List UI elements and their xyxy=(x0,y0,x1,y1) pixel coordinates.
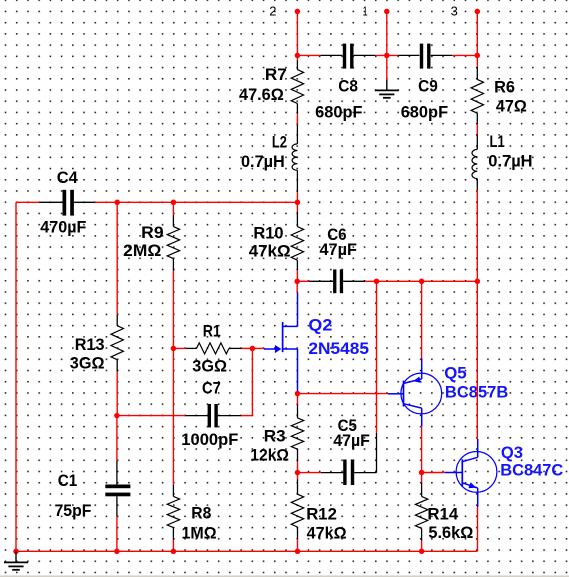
junction C5 net / R3 column xyxy=(295,470,301,476)
junction Q3 base net / R14 column xyxy=(419,470,425,476)
transistor Q5 BC857B xyxy=(388,359,442,427)
svg-text:R9: R9 xyxy=(141,223,163,242)
wire C5 net left stub xyxy=(298,472,322,474)
capacitor C4 xyxy=(40,190,95,216)
svg-text:R14: R14 xyxy=(427,505,458,524)
svg-text:L2: L2 xyxy=(272,133,287,152)
svg-text:3: 3 xyxy=(451,4,458,19)
junction C4 net / R13 column xyxy=(114,200,120,206)
svg-text:R10: R10 xyxy=(253,224,283,243)
svg-text:47Ω: 47Ω xyxy=(496,97,527,116)
resistor R8 xyxy=(167,485,179,540)
junction top net at node3 column xyxy=(475,53,481,59)
transistor Q5 label xyxy=(444,364,467,383)
node 1 pin xyxy=(384,9,390,56)
node 1 label xyxy=(363,4,368,19)
resistor R13 label xyxy=(75,335,105,354)
wire R1 left lead from junction xyxy=(173,347,186,349)
transistor Q3 BC847C xyxy=(445,439,497,507)
svg-text:680pF: 680pF xyxy=(401,103,448,122)
wire C5 right riser red part xyxy=(376,281,378,433)
inductor L1 label xyxy=(490,132,505,151)
wire C6 net left stub xyxy=(297,280,309,282)
resistor R6 label xyxy=(494,78,515,97)
junction C6 net / node3 column xyxy=(475,279,481,285)
resistor R10 value 47kΩ xyxy=(249,242,291,261)
resistor R10 xyxy=(291,211,303,270)
wire drain to C6 junction xyxy=(296,281,298,292)
capacitor C8 value 680pF xyxy=(315,103,362,122)
capacitor C1 value 75pF xyxy=(55,501,92,520)
svg-text:3GΩ: 3GΩ xyxy=(192,357,227,376)
svg-text:R12: R12 xyxy=(306,504,337,523)
svg-text:R8: R8 xyxy=(191,504,211,523)
resistor R6 xyxy=(471,67,483,124)
svg-text:Q3: Q3 xyxy=(501,443,523,462)
wire R1 right lead to gate junction xyxy=(242,347,253,349)
svg-text:47kΩ: 47kΩ xyxy=(307,523,347,542)
wire R8 to bottom rail xyxy=(172,540,174,551)
wire gate stub from junction xyxy=(252,347,264,349)
wire C7 net from R13 column junction xyxy=(117,415,185,417)
wire C6 net right xyxy=(365,280,477,282)
wire R14 to bottom rail xyxy=(421,541,423,552)
wire R10 to C6 net xyxy=(296,270,298,281)
svg-text:1MΩ: 1MΩ xyxy=(182,524,217,543)
resistor R1 value 3GΩ xyxy=(192,357,227,376)
wire C7 riser xyxy=(241,348,253,415)
capacitor C1 xyxy=(105,461,130,516)
wire source to Q5 base net xyxy=(297,391,299,394)
junction C7 net / R13 column xyxy=(114,413,120,419)
capacitor C8 xyxy=(321,44,376,69)
svg-text:BC847C: BC847C xyxy=(500,460,563,479)
wire C5 right riser black part xyxy=(376,433,378,473)
svg-text:2MΩ: 2MΩ xyxy=(123,241,161,260)
wire between R6 and L1 xyxy=(476,124,478,134)
capacitor C5 label xyxy=(338,416,357,435)
svg-text:R13: R13 xyxy=(75,335,105,354)
junction top net at node2 column xyxy=(295,53,301,59)
svg-text:R6: R6 xyxy=(494,78,515,97)
wire R9 down to R1 junction xyxy=(172,271,174,349)
transistor Q2 JFET 2N5485 xyxy=(264,293,298,392)
wire R3 to C5 net xyxy=(297,462,299,473)
wire C4 net to node2 column xyxy=(95,201,298,203)
svg-text:470µF: 470µF xyxy=(40,218,86,237)
wire bottom rail xyxy=(16,550,478,552)
junction bottom rail / C1 column xyxy=(114,549,120,555)
svg-text:680pF: 680pF xyxy=(315,103,362,122)
wire above R3 xyxy=(297,394,299,405)
wire node3 column down to Q3 collector xyxy=(476,281,478,439)
resistor R8 value 1MΩ xyxy=(182,524,217,543)
wire top net segment middle xyxy=(375,54,397,56)
wire node2 column above R7 xyxy=(296,55,298,60)
junction R1 net / R9 column xyxy=(171,346,177,352)
resistor R7 xyxy=(291,60,303,114)
resistor R9 label xyxy=(141,223,163,242)
svg-text:C9: C9 xyxy=(418,77,438,96)
resistor R12 label xyxy=(306,504,337,523)
resistor R1 label xyxy=(203,321,221,340)
capacitor C6 xyxy=(309,269,365,293)
transistor Q2 value 2N5485 xyxy=(308,339,369,358)
inductor L2 value 0.7µH xyxy=(241,152,285,171)
resistor R14 label xyxy=(427,505,458,524)
resistor R1 xyxy=(186,343,242,354)
resistor R7 value 47.6Ω xyxy=(239,85,284,104)
junction C4 net / R9 column xyxy=(171,200,177,206)
junction C6 net / C5 column xyxy=(374,279,380,285)
svg-text:3GΩ: 3GΩ xyxy=(70,354,105,373)
resistor R3 label xyxy=(264,427,286,446)
wire top net segment left xyxy=(297,54,320,56)
svg-text:47.6Ω: 47.6Ω xyxy=(239,85,284,104)
inductor L1 xyxy=(472,134,477,189)
wire C1 to bottom rail xyxy=(116,516,118,551)
svg-text:47µF: 47µF xyxy=(320,240,357,259)
capacitor C5 value 47µF xyxy=(333,431,370,450)
capacitor C7 value 1000pF xyxy=(181,430,238,449)
wire C7 junction down to C1 xyxy=(116,416,118,461)
svg-text:Q5: Q5 xyxy=(444,364,467,383)
capacitor C8 label xyxy=(338,77,358,96)
capacitor C4 label xyxy=(57,168,79,187)
resistor R3 value 12kΩ xyxy=(250,446,289,465)
capacitor C4 value 470µF xyxy=(40,218,86,237)
capacitor C6 value 47µF xyxy=(320,240,357,259)
resistor R3 xyxy=(291,404,303,461)
ground at node 1 xyxy=(375,55,399,97)
transistor Q3 label xyxy=(501,443,523,462)
junction C6 net / R10 column xyxy=(294,279,300,285)
junction C6 net / Q5 column xyxy=(419,279,425,285)
resistor R14 xyxy=(415,483,427,541)
resistor R12 xyxy=(291,479,303,539)
wire Q5 base net xyxy=(298,393,389,395)
capacitor C9 value 680pF xyxy=(401,103,448,122)
resistor R8 label xyxy=(191,504,211,523)
junction bottom rail / R14 column xyxy=(419,549,425,555)
svg-text:C1: C1 xyxy=(58,471,77,490)
transistor Q2 label xyxy=(308,316,332,335)
resistor R12 value 47kΩ xyxy=(307,523,347,542)
wire Q5 collector down to Q3 base net xyxy=(421,426,423,472)
svg-text:5.6kΩ: 5.6kΩ xyxy=(428,523,473,542)
svg-text:C7: C7 xyxy=(202,379,221,398)
resistor R9 xyxy=(167,215,179,271)
wire R9 column down to R8 (crossing C7 net) xyxy=(172,348,174,484)
junction bottom rail / R12 column xyxy=(295,549,301,555)
resistor R9 value 2MΩ xyxy=(123,241,161,260)
capacitor C7 xyxy=(185,404,241,427)
ground bottom left xyxy=(4,551,28,570)
node 2 label xyxy=(269,4,276,19)
svg-text:2N5485: 2N5485 xyxy=(308,339,369,358)
svg-text:C8: C8 xyxy=(338,77,358,96)
junction bottom rail / left rail (ground) xyxy=(13,549,19,555)
resistor R7 label xyxy=(265,65,287,84)
svg-text:0.7µH: 0.7µH xyxy=(241,152,285,171)
wire above R14 xyxy=(421,473,423,483)
svg-text:2: 2 xyxy=(269,4,276,19)
wire L2 to C4 net xyxy=(296,192,298,202)
wire Q3 base net xyxy=(422,472,445,474)
wire above R9 xyxy=(172,202,174,215)
svg-text:47kΩ: 47kΩ xyxy=(249,242,291,261)
svg-text:R1: R1 xyxy=(203,321,221,340)
resistor R14 value 5.6kΩ xyxy=(428,523,473,542)
svg-text:0.7µH: 0.7µH xyxy=(488,151,532,170)
transistor Q5 value BC857B xyxy=(445,383,508,402)
window edge strip bottom xyxy=(0,575,569,577)
wire above R10 xyxy=(296,202,298,211)
node 3 label xyxy=(451,4,458,19)
capacitor C1 label xyxy=(58,471,77,490)
resistor R10 label xyxy=(253,224,283,243)
node 2 pin xyxy=(295,9,301,56)
svg-text:Q2: Q2 xyxy=(308,316,332,335)
junction C4 net / node2 column xyxy=(295,200,301,206)
svg-text:C4: C4 xyxy=(57,168,79,187)
wire C4 net left corner xyxy=(16,201,40,203)
junction bottom rail / R8 column xyxy=(171,549,177,555)
svg-text:12kΩ: 12kΩ xyxy=(250,446,289,465)
svg-text:1: 1 xyxy=(363,4,368,19)
inductor L2 xyxy=(292,124,297,192)
wire R12 to bottom rail xyxy=(297,539,299,552)
wire between R7 and L2 xyxy=(296,114,298,124)
wire top net segment right xyxy=(452,54,477,56)
junction R1 net / C7 riser xyxy=(250,346,256,352)
capacitor C9 label xyxy=(418,77,438,96)
wire Q5 emitter from C6 net xyxy=(421,281,423,358)
svg-text:75pF: 75pF xyxy=(55,501,92,520)
inductor L1 value 0.7µH xyxy=(488,151,532,170)
junction top net at node1 column xyxy=(384,53,390,59)
wire R13 to C7 net xyxy=(116,372,118,416)
svg-text:47µF: 47µF xyxy=(333,431,370,450)
capacitor C6 label xyxy=(327,225,346,244)
wire above R12 xyxy=(297,473,299,480)
wire node3 column above R6 xyxy=(476,55,478,67)
inductor L2 label xyxy=(272,133,287,152)
svg-text:R7: R7 xyxy=(265,65,287,84)
wire left rail xyxy=(15,202,17,551)
wire Q3 emitter down to bottom rail corner xyxy=(477,507,479,551)
node 3 pin xyxy=(475,9,481,56)
wire L1 down to C6 net xyxy=(476,190,478,282)
resistor R13 value 3GΩ xyxy=(70,354,105,373)
wire above R13 xyxy=(116,202,118,314)
capacitor C7 label xyxy=(202,379,221,398)
capacitor C9 xyxy=(398,44,452,69)
svg-text:R3: R3 xyxy=(264,427,286,446)
svg-text:L1: L1 xyxy=(490,132,505,151)
resistor R13 xyxy=(111,315,123,372)
resistor R6 value 47Ω xyxy=(496,97,527,116)
capacitor C5 xyxy=(321,460,377,486)
junction Q5 base net / source column xyxy=(295,391,301,397)
svg-text:1000pF: 1000pF xyxy=(181,430,238,449)
transistor Q3 value BC847C xyxy=(500,460,563,479)
